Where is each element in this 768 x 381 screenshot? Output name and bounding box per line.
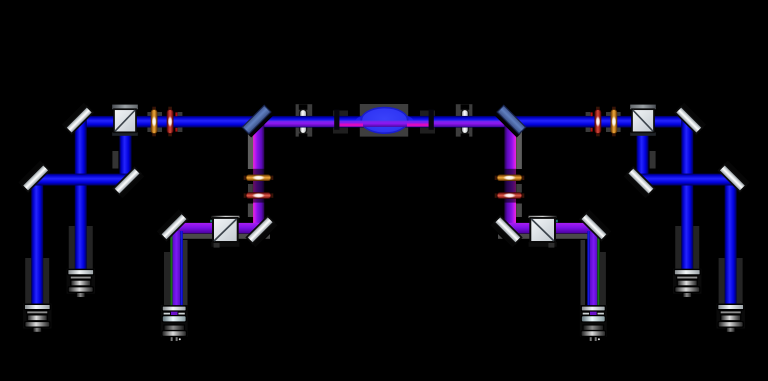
beamsplitter cube BS4 bbox=[529, 216, 558, 248]
glow flanks detector D1 beam bbox=[25, 258, 49, 304]
detector D5 bbox=[673, 269, 701, 298]
glow flanks detector D6 beam bbox=[719, 258, 743, 304]
gray column segment below left waveplates bbox=[248, 204, 254, 218]
dark filter left bbox=[334, 110, 339, 130]
mirror M8 bbox=[623, 167, 655, 199]
beam mirror M2 down to detector D1 bbox=[31, 176, 43, 305]
pump beam top horizontal bbox=[75, 116, 694, 128]
glow flank left of D3 beam bbox=[164, 252, 170, 305]
mirror M10 bbox=[580, 209, 612, 241]
glow box around right lens L2 bbox=[456, 104, 473, 136]
mirror M2 bbox=[18, 160, 50, 192]
beam mirror M6 down bbox=[681, 118, 693, 271]
shadow under left lower purple beam bbox=[171, 234, 270, 239]
gray column beside right cube down-beam bbox=[650, 151, 656, 169]
mount shading on left purple beam bbox=[253, 169, 265, 203]
mount shading on right purple beam bbox=[504, 169, 516, 203]
gray patches at left top waveplates bbox=[147, 112, 182, 132]
right composite beam green stripe bbox=[597, 231, 599, 308]
detector D1 bbox=[23, 304, 51, 333]
beamsplitter cube BS1 bbox=[112, 105, 138, 136]
glow flanks detector D2 beam bbox=[69, 226, 93, 270]
mirror M4 bbox=[246, 216, 278, 248]
magenta stripe left of crystal bbox=[339, 124, 363, 127]
purple beam right vertical bbox=[504, 124, 516, 232]
beam lower-right horizontal bbox=[635, 174, 739, 186]
gray column beside right purple beam bbox=[516, 131, 522, 169]
dichroic mirror left bbox=[242, 105, 274, 137]
mirror M7 bbox=[718, 160, 750, 192]
waveplate WP4 orange right arm bbox=[611, 106, 617, 136]
glow patch at left dark filter bbox=[333, 111, 348, 134]
beam cube BS1 down bbox=[120, 123, 132, 184]
glow flank right of D4 beam bbox=[600, 252, 606, 305]
right composite beam blue stripe bbox=[587, 231, 590, 308]
waveplate WP3 red right arm bbox=[591, 106, 601, 136]
gray column segment below right waveplates bbox=[516, 204, 522, 218]
down-converted violet overlay beam bbox=[251, 121, 517, 127]
purple beam left lower horizontal bbox=[172, 223, 262, 234]
left composite beam violet stripe bbox=[173, 231, 181, 317]
gray column beside left cube down-beam bbox=[112, 151, 118, 169]
purple beam right lower horizontal bbox=[506, 223, 596, 234]
detector D3 bbox=[161, 305, 188, 341]
waveplate WP7 orange right mid bbox=[494, 175, 524, 181]
waveplate WP2 red left arm bbox=[167, 106, 177, 136]
glow box around crystal bbox=[360, 104, 408, 137]
nonlinear crystal bbox=[361, 108, 407, 134]
beamsplitter cube BS2 bbox=[630, 105, 656, 136]
right composite beam violet stripe bbox=[590, 231, 597, 317]
waveplate WP6 red left mid bbox=[243, 193, 273, 199]
waveplate WP8 red right mid bbox=[494, 193, 524, 199]
gray patch between right mid waveplates bbox=[516, 184, 522, 193]
left composite beam green stripe bbox=[170, 231, 172, 308]
left composite beam blue stripe bbox=[180, 231, 183, 308]
glow box around left lens L1 bbox=[296, 104, 313, 136]
beam cube BS2 down bbox=[637, 123, 649, 184]
mirror M6 bbox=[674, 102, 706, 134]
mirror M9 bbox=[490, 216, 522, 248]
glow patch at right dark filter bbox=[420, 111, 435, 134]
mirror M5 bbox=[156, 209, 188, 241]
beamsplitter cube BS3 bbox=[210, 216, 239, 248]
mirror M3 bbox=[113, 167, 145, 199]
mirror M1 bbox=[61, 102, 93, 134]
waveplate WP1 orange left arm bbox=[151, 106, 157, 136]
detector D2 bbox=[67, 269, 95, 298]
crystal glow wings bbox=[356, 113, 414, 130]
dichroic mirror right bbox=[494, 105, 526, 137]
gray column beside left purple beam bbox=[248, 131, 254, 169]
gray patch between left mid waveplates bbox=[248, 184, 254, 193]
gray column beside left detector beam bbox=[183, 240, 188, 305]
gray patches at right top waveplates bbox=[586, 112, 621, 132]
detector D4 bbox=[580, 305, 607, 341]
glow flanks detector D5 beam bbox=[675, 226, 699, 270]
beam lower-left horizontal bbox=[29, 174, 133, 186]
dark filter right bbox=[429, 110, 434, 130]
gray column beside right detector beam bbox=[581, 240, 586, 305]
lens L2 bbox=[461, 104, 470, 138]
magenta stripe right of crystal bbox=[407, 124, 429, 127]
beam mirror M1 down bbox=[75, 118, 87, 271]
purple beam left vertical bbox=[253, 124, 264, 232]
waveplate WP5 orange left mid bbox=[243, 175, 273, 181]
lens L1 bbox=[299, 104, 308, 138]
detector D6 bbox=[717, 304, 745, 333]
beam mirror M7 down to detector D6 bbox=[725, 176, 737, 305]
shadow under right lower purple beam bbox=[498, 234, 597, 239]
